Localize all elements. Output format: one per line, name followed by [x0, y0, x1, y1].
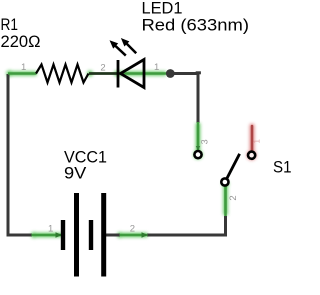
svg-text:1: 1 [154, 62, 159, 73]
svg-text:2: 2 [228, 195, 239, 200]
wire current arrow battery pin2 [142, 232, 149, 238]
svg-text:9V: 9V [64, 164, 87, 183]
switch S1 lever [227, 154, 240, 178]
svg-text:1: 1 [21, 62, 26, 73]
wire core battery pin2 [120, 234, 148, 237]
wire core switch pin3 [197, 122, 200, 151]
wire battery pin2 stub [104, 234, 120, 237]
wire core LED->dot [118, 72, 168, 75]
svg-text:Red (633nm): Red (633nm) [142, 16, 250, 35]
battery VCC1 plate tall 2 [101, 193, 106, 277]
green glow layer [6, 70, 229, 238]
red glow layer [247, 126, 257, 160]
wire current arrow battery pin1 [56, 232, 63, 238]
dark wires [7, 74, 226, 237]
wire glow battery pin2 [120, 233, 148, 238]
LED1 cathode bar [117, 60, 120, 88]
wire red core switch pin1 [251, 126, 254, 150]
battery VCC1 plate short 1 [61, 220, 65, 250]
green wire cores [8, 74, 226, 236]
LED1 emission arrow right [121, 38, 136, 53]
resistor R1 [36, 65, 89, 83]
battery VCC1 plate tall 1 [74, 193, 79, 277]
wire core switch pin2 [224, 187, 227, 217]
svg-text:2: 2 [130, 223, 135, 234]
wire glow switch pin3 vertical [196, 123, 201, 150]
svg-text:3: 3 [200, 139, 210, 144]
switch S1 pin 3 terminal [194, 151, 201, 158]
wire bottom-right segment + up to switch pin2 [147, 216, 226, 235]
switch S1 pin 2 pivot terminal [221, 178, 228, 185]
wire glow switch pin2 vertical [223, 187, 228, 215]
LED1 triangle [121, 60, 145, 88]
wire current arrow switch pin3 [196, 146, 200, 151]
LED1 emission arrow left [110, 40, 126, 55]
junction dot [166, 69, 175, 78]
wire glow LED->dot [118, 71, 166, 76]
svg-text:S1: S1 [273, 158, 292, 177]
wire left vertical [7, 74, 10, 237]
wire glow R1->LED endpoints [87, 71, 93, 77]
wire dot to corner and down to switch pin3 [170, 74, 198, 124]
svg-text:1: 1 [48, 224, 53, 235]
wire glow switch pin1 red [250, 126, 255, 150]
svg-text:2: 2 [100, 62, 105, 73]
svg-text:R1: R1 [1, 15, 19, 34]
wire bottom-left segment [7, 234, 33, 237]
wire glow battery pin1 [32, 233, 62, 238]
wire dark-green segment R1->LED [89, 72, 118, 75]
wire glow net VCC->R1 top-left [10, 71, 37, 76]
switch S1 pin 1 terminal [248, 152, 255, 159]
wire corner cap bump [196, 71, 201, 74]
battery VCC1 plate short 2 [89, 220, 93, 250]
svg-text:1: 1 [253, 139, 262, 144]
wire core top-left [8, 72, 37, 75]
svg-text:220Ω: 220Ω [1, 32, 41, 51]
wire core battery pin1 [32, 234, 62, 237]
